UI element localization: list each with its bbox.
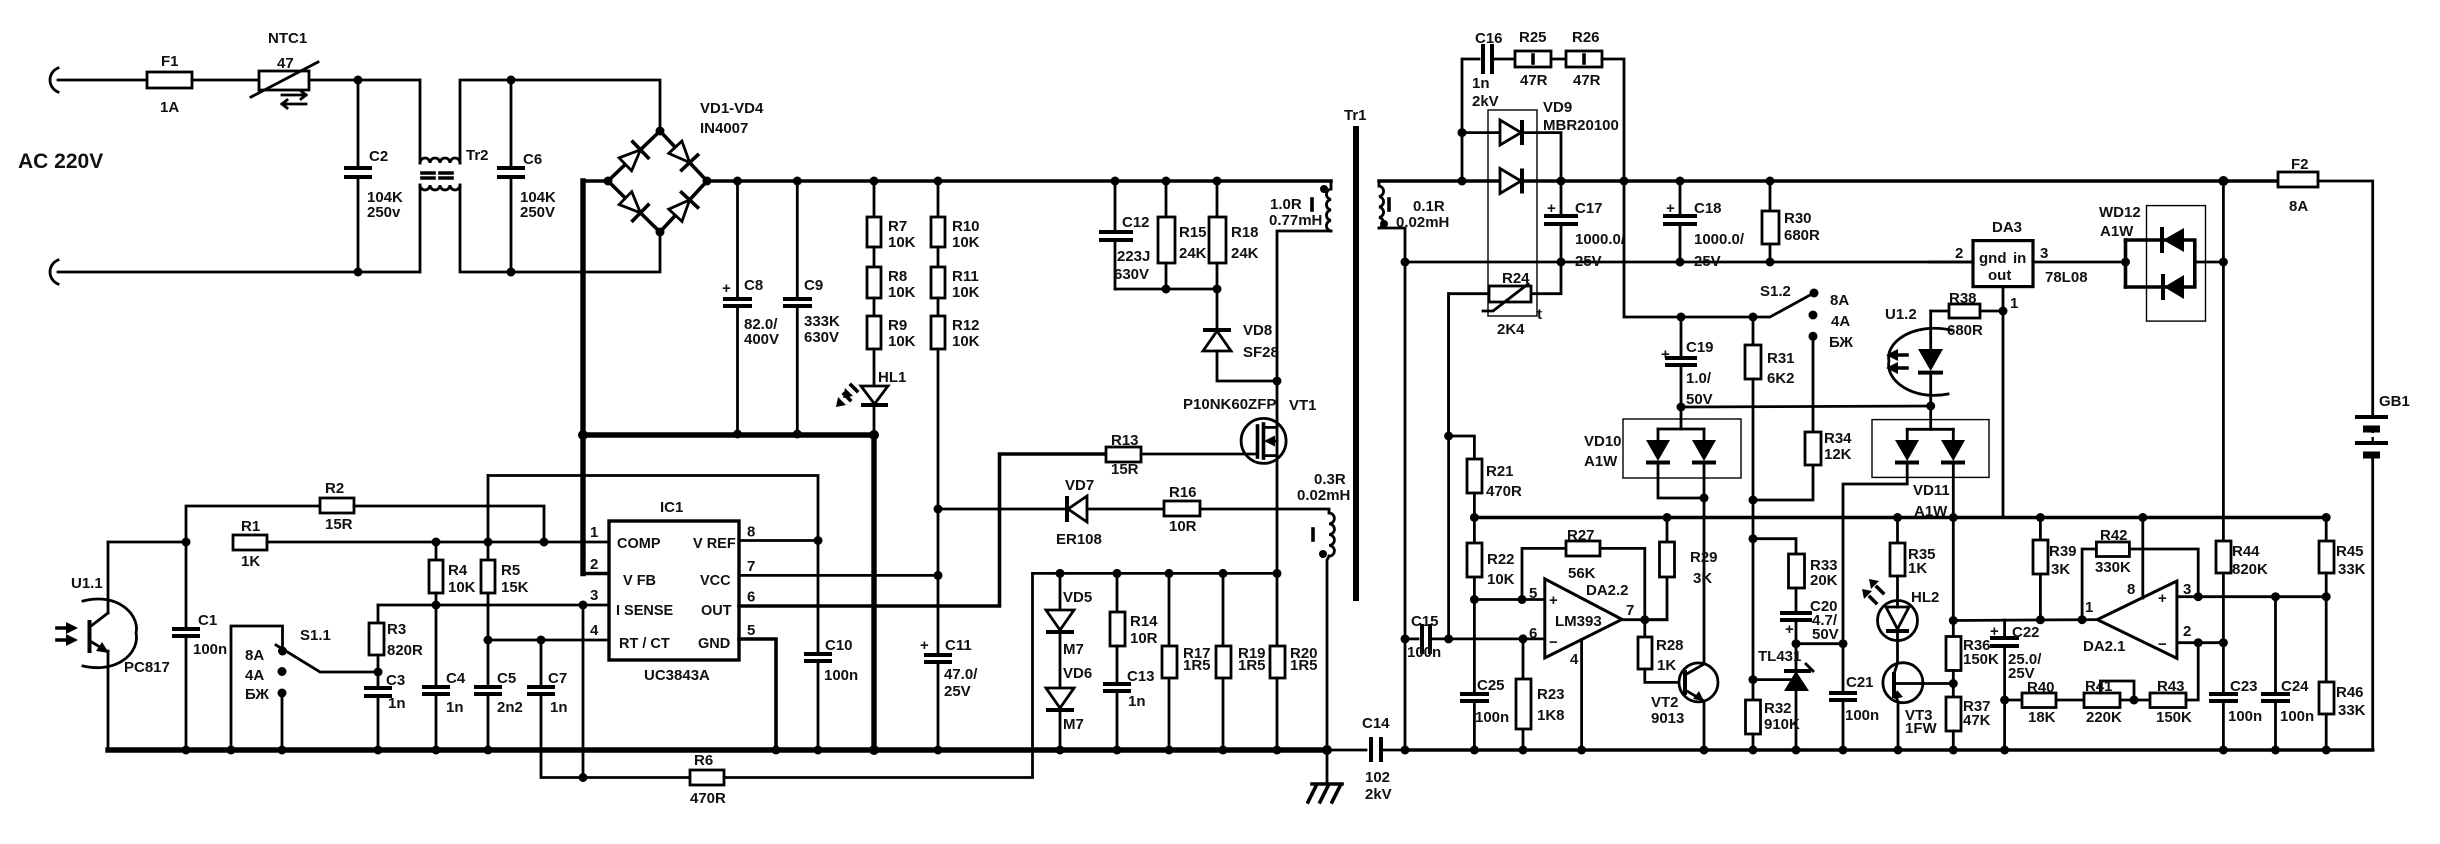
svg-text:470R: 470R xyxy=(1486,483,1522,500)
svg-text:47K: 47K xyxy=(1963,712,1991,729)
svg-text:50V: 50V xyxy=(1812,626,1839,643)
node R4 bottom on pin3 wire xyxy=(432,601,441,610)
node C18 bottom xyxy=(1676,258,1685,267)
dual diode VD10 A1W xyxy=(1584,407,1741,663)
svg-text:680R: 680R xyxy=(1947,322,1983,339)
svg-text:+: + xyxy=(1547,200,1556,217)
svg-text:+: + xyxy=(1785,621,1794,638)
svg-text:+: + xyxy=(2158,590,2167,607)
resistor R12 xyxy=(931,298,980,350)
svg-text:R6: R6 xyxy=(694,752,713,769)
rail secondary ground bottom xyxy=(1405,748,2373,752)
node C22 bottom xyxy=(2000,746,2009,755)
node C24 bottom xyxy=(2271,746,2280,755)
svg-text:R1: R1 xyxy=(241,518,260,535)
resistor R25 xyxy=(1515,29,1551,89)
node C11 bottom xyxy=(934,746,943,755)
wire DA3 pin2 gnd stub xyxy=(1943,261,1973,264)
svg-text:100n: 100n xyxy=(1845,707,1879,724)
svg-text:R18: R18 xyxy=(1231,224,1259,241)
capacitor C1 xyxy=(172,542,227,750)
resistor R34 xyxy=(1753,336,1852,500)
svg-text:25V: 25V xyxy=(944,683,971,700)
capacitor C16 xyxy=(1462,30,1515,181)
svg-text:DA3: DA3 xyxy=(1992,219,2022,236)
resistor R42 xyxy=(2082,527,2198,620)
node R39 top bus xyxy=(2036,513,2045,522)
node GND bottom xyxy=(772,746,781,755)
inductor Tr1 aux winding 0.3R 0.02mH xyxy=(1277,471,1350,750)
node C8 bottom xyxy=(733,430,742,439)
node R6 left xyxy=(579,773,588,782)
svg-text:WD12: WD12 xyxy=(2099,204,2141,221)
svg-text:1.0/: 1.0/ xyxy=(1686,370,1712,387)
node R19 bottom xyxy=(1219,746,1228,755)
svg-text:R31: R31 xyxy=(1767,350,1795,367)
node R14 top xyxy=(1113,569,1122,578)
capacitor C5 xyxy=(474,640,523,750)
svg-text:9013: 9013 xyxy=(1651,710,1684,727)
node WD12 left xyxy=(2121,258,2130,267)
svg-text:25V: 25V xyxy=(1694,253,1721,270)
node R19 top xyxy=(1219,569,1228,578)
svg-text:NTC1: NTC1 xyxy=(268,30,307,47)
svg-text:2: 2 xyxy=(1955,245,1963,262)
capacitor C23 xyxy=(2209,643,2262,750)
capacitor C15 xyxy=(1405,613,1449,661)
resistor R38 xyxy=(1931,290,2003,339)
node C2 bottom xyxy=(354,268,363,277)
svg-text:1n: 1n xyxy=(550,699,568,716)
node R23 top xyxy=(1519,634,1528,643)
node secondary ground left xyxy=(1401,746,1410,755)
svg-text:C21: C21 xyxy=(1846,674,1874,691)
svg-text:S1.2: S1.2 xyxy=(1760,283,1791,300)
svg-text:6K2: 6K2 xyxy=(1767,370,1795,387)
transistor VT3 1FW xyxy=(1883,663,1954,750)
svg-text:10K: 10K xyxy=(952,234,980,251)
diode VD7 ER108 xyxy=(938,477,1164,548)
svg-text:0.02mH: 0.02mH xyxy=(1396,214,1449,231)
resistor R22 xyxy=(1467,518,1515,695)
svg-text:8A: 8A xyxy=(1830,292,1849,309)
resistor R39 xyxy=(2033,518,2077,620)
svg-text:S1.1: S1.1 xyxy=(300,627,331,644)
svg-text:C18: C18 xyxy=(1694,200,1722,217)
thermistor NTC1 xyxy=(251,30,318,108)
wire VD11 column to R36 xyxy=(1952,518,1955,621)
wire VT1 source vertical xyxy=(1276,508,1279,573)
svg-text:10K: 10K xyxy=(888,234,916,251)
node rail x583 xyxy=(578,430,588,440)
node C21 top xyxy=(1839,639,1848,648)
LED HL1 xyxy=(836,349,906,435)
svg-text:R4: R4 xyxy=(448,562,468,579)
svg-text:47R: 47R xyxy=(1573,72,1601,89)
svg-text:out: out xyxy=(1988,267,2011,284)
node R31 top xyxy=(1749,313,1758,322)
svg-text:5: 5 xyxy=(747,622,755,639)
svg-text:R9: R9 xyxy=(888,317,907,334)
svg-text:24K: 24K xyxy=(1231,245,1259,262)
resistor R8 xyxy=(867,247,916,301)
svg-text:C11: C11 xyxy=(945,637,972,654)
svg-text:25V: 25V xyxy=(1575,253,1602,270)
svg-text:0.3R: 0.3R xyxy=(1314,471,1346,488)
svg-text:333K: 333K xyxy=(804,313,840,330)
bridge rectifier VD1-VD4 xyxy=(604,100,765,237)
capacitor C21 xyxy=(1829,644,1879,750)
wire DA2.2 pin6 xyxy=(1449,638,1545,641)
wire DA2.2 pin5 xyxy=(1474,598,1544,601)
svg-text:78L08: 78L08 xyxy=(2045,269,2088,286)
svg-text:3: 3 xyxy=(590,587,598,604)
svg-text:33K: 33K xyxy=(2338,702,2366,719)
rail DC minus horizontal y435 xyxy=(583,432,874,437)
transformer Tr2 common-mode choke xyxy=(420,80,511,272)
svg-text:R38: R38 xyxy=(1949,290,1977,307)
svg-text:C22: C22 xyxy=(2012,624,2040,641)
node C2 top xyxy=(354,76,363,85)
node R37 bottom xyxy=(1949,746,1958,755)
svg-text:8A: 8A xyxy=(245,647,264,664)
regulator DA3 78L08 xyxy=(1955,219,2088,312)
svg-text:R3: R3 xyxy=(387,621,406,638)
svg-text:R43: R43 xyxy=(2157,678,2185,695)
diode VD5 M7 xyxy=(1046,573,1092,658)
svg-text:GB1: GB1 xyxy=(2379,393,2410,410)
capacitor C24 xyxy=(2261,597,2314,750)
svg-text:VCC: VCC xyxy=(700,573,731,589)
node R2 riser on pin1 wire xyxy=(540,538,549,547)
wire VREF riser to R5 xyxy=(488,476,818,541)
node R26 riser on rail xyxy=(1620,177,1629,186)
node VCC C11 xyxy=(934,571,943,580)
svg-text:C10: C10 xyxy=(825,637,853,654)
wire DA2.1 pin1 output xyxy=(1953,618,2097,622)
svg-text:C6: C6 xyxy=(523,151,542,168)
svg-text:R29: R29 xyxy=(1690,549,1718,566)
svg-text:R12: R12 xyxy=(952,317,980,334)
svg-text:F2: F2 xyxy=(2291,156,2309,173)
node VT2 emitter ground xyxy=(1700,746,1709,755)
svg-text:VD11: VD11 xyxy=(1913,482,1950,499)
svg-text:1n: 1n xyxy=(1128,693,1146,710)
wire F2 to battery xyxy=(2318,181,2373,414)
svg-text:C1: C1 xyxy=(198,612,217,629)
wire VREF pin8 xyxy=(739,539,818,542)
opamp DA2.1 xyxy=(2083,581,2191,658)
svg-text:1.0R: 1.0R xyxy=(1270,196,1302,213)
svg-text:DA2.2: DA2.2 xyxy=(1586,582,1629,599)
svg-text:10K: 10K xyxy=(952,333,980,350)
svg-text:C9: C9 xyxy=(804,277,823,294)
svg-text:R13: R13 xyxy=(1111,432,1139,449)
svg-text:400V: 400V xyxy=(744,331,779,348)
wire F1 to NTC1 xyxy=(192,79,259,82)
wire DA2.1 pin8 riser xyxy=(2141,518,2144,599)
node C7 top on pin4 wire xyxy=(537,636,546,645)
wire IC pin3 I SENSE xyxy=(378,604,609,607)
svg-text:10K: 10K xyxy=(888,333,916,350)
svg-text:PC817: PC817 xyxy=(124,659,170,676)
transistor VT1 MOSFET xyxy=(1241,381,1286,508)
rail secondary top y180 xyxy=(1379,179,2278,183)
svg-text:250v: 250v xyxy=(367,204,401,221)
svg-text:7: 7 xyxy=(747,558,755,575)
node VD7 anode on VCC column xyxy=(934,505,943,514)
resistor R35 xyxy=(1890,518,1936,602)
resistor R21 xyxy=(1449,436,1522,518)
node R18 top xyxy=(1213,177,1222,186)
svg-text:C19: C19 xyxy=(1686,339,1714,356)
svg-text:100n: 100n xyxy=(193,641,227,658)
svg-text:56K: 56K xyxy=(1568,565,1596,582)
wire snubber bottom xyxy=(1115,288,1217,291)
wire C20 node to C21 xyxy=(1796,642,1843,645)
AC input terminal top xyxy=(50,68,58,92)
dual diode VD11 A1W xyxy=(1843,406,1989,644)
svg-text:4: 4 xyxy=(590,622,599,639)
wire AC bottom xyxy=(58,271,420,274)
svg-text:R16: R16 xyxy=(1169,484,1197,501)
node R17 bottom xyxy=(1165,746,1174,755)
battery GB1 xyxy=(2355,393,2410,750)
svg-text:C16: C16 xyxy=(1475,30,1503,47)
svg-text:1R5: 1R5 xyxy=(1238,657,1266,674)
svg-text:1n: 1n xyxy=(1472,75,1490,92)
capacitor C2 xyxy=(344,80,403,272)
resistor R26 xyxy=(1551,29,1624,181)
svg-text:223J: 223J xyxy=(1117,248,1150,265)
AC input terminal bottom xyxy=(50,260,58,284)
svg-text:24K: 24K xyxy=(1179,245,1207,262)
svg-text:330K: 330K xyxy=(2095,559,2131,576)
svg-text:2kV: 2kV xyxy=(1365,786,1392,803)
node C22 on R40 wire xyxy=(2000,696,2009,705)
resistor R27 xyxy=(1522,527,1645,620)
svg-text:F1: F1 xyxy=(161,53,179,70)
svg-text:910K: 910K xyxy=(1764,716,1800,733)
svg-text:VD1-VD4: VD1-VD4 xyxy=(700,100,764,117)
capacitor C14 xyxy=(1362,715,1405,803)
svg-text:2kV: 2kV xyxy=(1472,93,1499,110)
capacitor C7 xyxy=(527,640,583,778)
svg-text:220K: 220K xyxy=(2086,709,2122,726)
node R45 bottom pin3 xyxy=(2322,592,2331,601)
switch S1.1 xyxy=(231,626,378,750)
svg-text:MBR20100: MBR20100 xyxy=(1543,117,1619,134)
svg-text:1n: 1n xyxy=(446,699,464,716)
node R7 top xyxy=(870,177,879,186)
svg-text:2K4: 2K4 xyxy=(1497,321,1525,338)
svg-text:+: + xyxy=(1666,200,1675,217)
resistor R31 xyxy=(1745,317,1795,500)
node R34 R31 junction xyxy=(1749,496,1758,505)
svg-text:680R: 680R xyxy=(1784,227,1820,244)
node R36 R37 VT3 base xyxy=(1949,679,1958,688)
svg-text:3K: 3K xyxy=(2051,561,2070,578)
node R15 bottom xyxy=(1162,285,1171,294)
capacitor C9 xyxy=(783,181,840,434)
node R15 top xyxy=(1162,177,1171,186)
svg-text:12K: 12K xyxy=(1824,446,1852,463)
wire VCC pin7 xyxy=(739,574,938,577)
node C5 bottom xyxy=(484,746,493,755)
node aux winding ground xyxy=(1322,745,1332,755)
svg-text:1: 1 xyxy=(2085,599,2093,616)
svg-text:2n2: 2n2 xyxy=(497,699,523,716)
svg-text:A1W: A1W xyxy=(1584,453,1618,470)
svg-text:R25: R25 xyxy=(1519,29,1547,46)
svg-text:M7: M7 xyxy=(1063,641,1084,658)
resistor R33 xyxy=(1753,539,1838,613)
node C18 top xyxy=(1676,177,1685,186)
node pin8 riser bus xyxy=(2138,513,2147,522)
svg-text:8A: 8A xyxy=(2289,198,2308,215)
svg-text:47R: 47R xyxy=(1520,72,1548,89)
thermistor R24 2K4 xyxy=(1449,262,1561,436)
svg-text:C7: C7 xyxy=(548,670,567,687)
svg-text:1: 1 xyxy=(2010,295,2018,312)
svg-text:0.02mH: 0.02mH xyxy=(1297,487,1350,504)
wire R2 to pin1 riser xyxy=(354,506,544,542)
svg-text:UC3843A: UC3843A xyxy=(644,667,710,684)
capacitor C8 xyxy=(722,181,779,434)
resistor R45 xyxy=(2319,518,2366,597)
inductor Tr1 secondary winding 0.1R 0.02mH xyxy=(1379,181,1449,262)
svg-text:R46: R46 xyxy=(2336,684,2364,701)
bus output plus y517.5 xyxy=(1474,516,2326,520)
node VT1 drain xyxy=(1273,377,1282,386)
node S1.1 BZh bottom xyxy=(278,746,287,755)
wire AC top left xyxy=(58,79,147,82)
resistor R2 xyxy=(320,480,354,533)
node S1.1 box bottom xyxy=(227,746,236,755)
svg-text:R45: R45 xyxy=(2336,543,2364,560)
svg-text:C8: C8 xyxy=(744,277,763,294)
node R36 column bus xyxy=(1949,513,1958,522)
node R5 top xyxy=(484,538,493,547)
svg-text:C5: C5 xyxy=(497,670,516,687)
node R38 right on DA3 column xyxy=(1999,307,2008,316)
node R41 tap junction xyxy=(2130,696,2139,705)
svg-text:LM393: LM393 xyxy=(1555,613,1602,630)
capacitor C10 xyxy=(804,541,858,751)
node R3 bottom switch node xyxy=(374,668,383,677)
svg-text:P10NK60ZFP: P10NK60ZFP xyxy=(1183,396,1276,413)
capacitor C12 xyxy=(1099,181,1150,289)
svg-text:10R: 10R xyxy=(1169,518,1197,535)
resistor R4 xyxy=(429,542,476,605)
node C15 right R24 column xyxy=(1444,634,1453,643)
node R39 bottom pin1 wire xyxy=(2036,615,2045,624)
resistor R16 xyxy=(1164,484,1277,535)
svg-text:C14: C14 xyxy=(1362,715,1390,732)
rail secondary ground y262 xyxy=(1405,261,1973,264)
wire anode bus C19 to VD11 xyxy=(1681,406,1931,407)
node C10 bottom xyxy=(814,746,823,755)
capacitor C13 xyxy=(1103,646,1155,750)
node R5 bottom on pin4 wire xyxy=(484,636,493,645)
svg-text:7: 7 xyxy=(1626,602,1634,619)
svg-text:C24: C24 xyxy=(2281,678,2309,695)
node F2 junction top rail xyxy=(2218,176,2228,186)
svg-text:1K: 1K xyxy=(1657,657,1676,674)
svg-text:VD5: VD5 xyxy=(1063,589,1092,606)
svg-text:630V: 630V xyxy=(804,329,839,346)
svg-text:VD9: VD9 xyxy=(1543,99,1572,116)
node thick vertical x874 bottom xyxy=(869,745,879,755)
svg-text:R32: R32 xyxy=(1764,700,1792,717)
svg-text:TL431: TL431 xyxy=(1758,648,1801,665)
resistor R9 xyxy=(867,298,916,350)
wire DA2.2 output pin7 xyxy=(1622,618,1667,621)
svg-text:R11: R11 xyxy=(952,268,979,285)
node R35 top on bus xyxy=(1893,513,1902,522)
node R33 branch xyxy=(1749,534,1758,543)
svg-text:102: 102 xyxy=(1365,769,1390,786)
node pin4 bottom xyxy=(1577,746,1586,755)
node source R20 xyxy=(1273,569,1282,578)
node R22 bottom pin5 xyxy=(1470,595,1479,604)
node R32 bottom xyxy=(1749,746,1758,755)
node pin7 R29 xyxy=(1640,615,1649,624)
svg-text:2: 2 xyxy=(2183,623,2191,640)
svg-text:C13: C13 xyxy=(1127,668,1155,685)
capacitor C17 xyxy=(1544,181,1626,270)
wire DC minus vertical x583 xyxy=(580,181,585,435)
capacitor C19 xyxy=(1661,317,1714,408)
wire AC bottom to bridge xyxy=(511,232,660,272)
svg-text:18K: 18K xyxy=(2028,709,2056,726)
node C12 top xyxy=(1111,177,1120,186)
node R30 top xyxy=(1766,177,1775,186)
svg-text:630V: 630V xyxy=(1114,266,1149,283)
svg-text:C15: C15 xyxy=(1411,613,1439,630)
svg-text:4A: 4A xyxy=(1831,313,1850,330)
svg-text:3: 3 xyxy=(2040,245,2048,262)
svg-text:150K: 150K xyxy=(1963,651,1999,668)
svg-text:R28: R28 xyxy=(1656,637,1684,654)
wire DA3 pin3 to WD12 xyxy=(2033,261,2126,264)
wire C6 to bridge top xyxy=(511,80,660,131)
node VD10 bottom join xyxy=(1700,494,1709,503)
wire DA3 gnd rail link xyxy=(1930,261,1943,264)
resistor R14 xyxy=(1110,573,1158,647)
switch S1.2 xyxy=(1753,283,1853,351)
svg-text:150K: 150K xyxy=(2156,709,2192,726)
svg-text:R39: R39 xyxy=(2049,543,2077,560)
svg-text:VT2: VT2 xyxy=(1651,694,1679,711)
svg-text:4: 4 xyxy=(1570,651,1579,668)
resistor R20 xyxy=(1270,573,1318,750)
svg-text:10K: 10K xyxy=(888,284,916,301)
svg-text:VD8: VD8 xyxy=(1243,322,1272,339)
optocoupler U1.2 LED xyxy=(1885,306,1951,406)
node R23 bottom xyxy=(1519,746,1528,755)
resistor R32 xyxy=(1746,680,1801,750)
node C20 bottom TL431 cathode xyxy=(1792,639,1801,648)
svg-text:VD6: VD6 xyxy=(1063,665,1092,682)
svg-text:+: + xyxy=(920,637,929,654)
fuse F2 xyxy=(2278,156,2318,215)
svg-text:−: − xyxy=(1549,634,1558,651)
resistor R28 xyxy=(1638,620,1684,683)
resistor R17 xyxy=(1162,573,1211,750)
svg-text:+: + xyxy=(1990,623,1999,640)
node VD9 output C17 top xyxy=(1557,177,1566,186)
